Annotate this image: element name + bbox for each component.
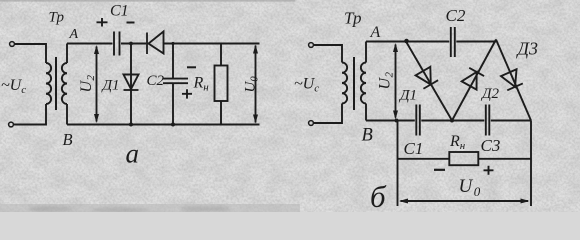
svg-text:Д1: Д1	[101, 78, 120, 94]
svg-text:А: А	[370, 24, 381, 41]
svg-text:С1: С1	[110, 3, 129, 20]
svg-text:С1: С1	[404, 139, 424, 158]
svg-text:Тр: Тр	[49, 10, 65, 26]
svg-text:С2: С2	[147, 73, 165, 89]
svg-text:С2: С2	[446, 6, 466, 25]
svg-text:Д3: Д3	[516, 39, 538, 59]
svg-text:С3: С3	[481, 136, 501, 155]
svg-text:В: В	[362, 126, 373, 146]
svg-text:Тр: Тр	[344, 9, 362, 28]
svg-text:а: а	[126, 139, 140, 169]
svg-text:б: б	[370, 179, 387, 212]
svg-text:В: В	[63, 130, 73, 149]
svg-text:А: А	[69, 27, 79, 42]
svg-text:Д1: Д1	[398, 88, 417, 104]
svg-text:Д2: Д2	[480, 86, 500, 102]
